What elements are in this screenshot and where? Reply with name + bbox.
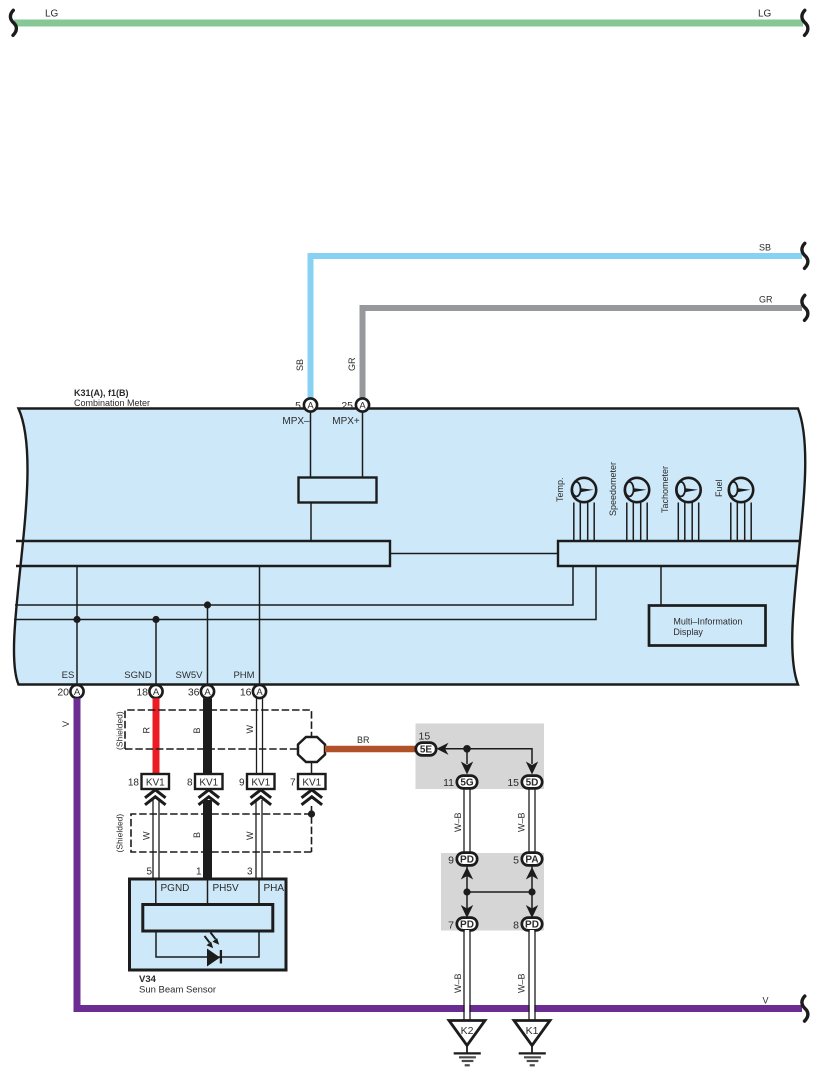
wire B to sensor pin 1 bbox=[203, 800, 212, 879]
break symbol right of LG wire bbox=[802, 10, 808, 35]
svg-text:W–B: W–B bbox=[517, 812, 527, 832]
MPX module box bbox=[299, 478, 377, 503]
break symbol right of GR wire bbox=[802, 295, 808, 320]
wire 5E to branch bbox=[445, 749, 532, 764]
pin 20 connector A (ES) bbox=[57, 670, 83, 699]
svg-text:W: W bbox=[245, 831, 255, 840]
break symbol left of LG wire bbox=[10, 10, 16, 35]
connector 5 PA bbox=[513, 853, 542, 867]
wire GR (gray) bbox=[363, 308, 803, 398]
wire W to sensor pin 5 bbox=[153, 800, 159, 879]
svg-text:15: 15 bbox=[419, 731, 431, 743]
svg-text:8: 8 bbox=[513, 920, 519, 932]
svg-text:MPX–: MPX– bbox=[282, 416, 310, 427]
svg-text:7: 7 bbox=[290, 778, 296, 789]
svg-text:A: A bbox=[256, 687, 263, 698]
svg-text:PGND: PGND bbox=[161, 883, 190, 894]
svg-text:SB: SB bbox=[295, 359, 305, 371]
Multi-Information Display box bbox=[649, 606, 766, 646]
connector 8 KV1 bbox=[187, 774, 223, 805]
svg-text:KV1: KV1 bbox=[302, 778, 321, 789]
photodiode D1 bbox=[207, 949, 221, 967]
wire W-B left upper bbox=[464, 788, 470, 853]
internal wire ES vertical bbox=[76, 566, 78, 685]
wire from pin 5 to MPX module bbox=[310, 412, 312, 478]
internal wire SW5V vertical bbox=[207, 605, 209, 685]
svg-text:Fuel: Fuel bbox=[714, 479, 724, 497]
arrow down to 7 PD bbox=[461, 905, 473, 918]
svg-text:Temp.: Temp. bbox=[555, 477, 565, 502]
svg-text:SW5V: SW5V bbox=[176, 670, 204, 681]
svg-text:PHA: PHA bbox=[264, 883, 285, 894]
connector 9 KV1 bbox=[239, 774, 275, 805]
wire from MPX module to left bus bar bbox=[310, 503, 312, 542]
svg-text:Display: Display bbox=[673, 627, 703, 637]
svg-text:LG: LG bbox=[45, 9, 59, 20]
wire octagon to connector 7 KV1 bbox=[311, 762, 313, 774]
svg-text:5: 5 bbox=[295, 400, 301, 412]
pin 5 connector A (MPX-) bbox=[282, 398, 317, 427]
svg-text:5G: 5G bbox=[460, 778, 474, 789]
svg-text:GR: GR bbox=[347, 357, 357, 371]
arrow up into 9 PD bbox=[461, 867, 473, 880]
svg-text:PA: PA bbox=[525, 855, 538, 866]
svg-text:1: 1 bbox=[196, 867, 202, 878]
svg-text:18: 18 bbox=[128, 778, 140, 789]
svg-text:A: A bbox=[74, 687, 81, 698]
junction block shaded area upper bbox=[416, 724, 545, 790]
svg-text:3: 3 bbox=[247, 867, 253, 878]
connector 11 5G bbox=[443, 776, 477, 789]
sensor terminal PH5V bbox=[208, 879, 239, 905]
svg-text:W: W bbox=[245, 725, 255, 734]
svg-text:K1: K1 bbox=[526, 1025, 539, 1037]
svg-text:V: V bbox=[61, 721, 71, 727]
svg-text:W: W bbox=[142, 831, 152, 840]
wire V (purple) bbox=[77, 698, 802, 1008]
svg-text:16: 16 bbox=[240, 687, 252, 699]
left bus bar bbox=[16, 541, 390, 566]
connector 9 PD bbox=[448, 853, 477, 867]
break symbol right of V wire bbox=[802, 996, 808, 1021]
internal wire upper horizontal bbox=[15, 566, 573, 605]
svg-text:R: R bbox=[142, 727, 152, 734]
svg-text:9: 9 bbox=[448, 855, 454, 867]
svg-text:A: A bbox=[307, 400, 314, 411]
svg-text:15: 15 bbox=[507, 777, 519, 789]
svg-text:5: 5 bbox=[146, 867, 152, 878]
internal wire PHM vertical bbox=[259, 566, 261, 685]
svg-text:18: 18 bbox=[136, 687, 148, 699]
wire bus bar to Multi-Information Display bbox=[660, 566, 662, 605]
svg-text:A: A bbox=[359, 400, 366, 411]
svg-text:W–B: W–B bbox=[517, 973, 527, 993]
junction node left bridge bbox=[463, 888, 470, 895]
svg-text:SGND: SGND bbox=[124, 670, 152, 681]
gauge Speedometer bbox=[608, 462, 649, 541]
svg-text:B: B bbox=[192, 727, 202, 733]
svg-text:20: 20 bbox=[57, 687, 69, 699]
sensor terminal PGND bbox=[156, 879, 190, 905]
wire W-B right upper bbox=[529, 788, 535, 853]
right bus bar bbox=[558, 541, 801, 566]
svg-text:7: 7 bbox=[448, 920, 454, 932]
junction node right bridge bbox=[528, 888, 535, 895]
svg-text:A: A bbox=[204, 687, 211, 698]
ground point K1 bbox=[514, 1021, 550, 1066]
svg-text:ES: ES bbox=[62, 670, 75, 681]
junction node on 5E wire bbox=[463, 745, 471, 753]
svg-text:KV1: KV1 bbox=[146, 778, 165, 789]
ground point K2 bbox=[449, 1021, 485, 1066]
svg-text:BR: BR bbox=[357, 735, 370, 745]
component V34 Sun Beam Sensor body bbox=[130, 879, 287, 970]
wire PD to PA bridge bbox=[467, 865, 532, 916]
svg-text:KV1: KV1 bbox=[199, 778, 218, 789]
connector 7 KV1 bbox=[290, 774, 326, 805]
svg-text:A: A bbox=[153, 687, 160, 698]
svg-text:(Shielded): (Shielded) bbox=[115, 814, 125, 853]
svg-text:GR: GR bbox=[759, 295, 773, 305]
pin 36 connector A (SW5V) bbox=[176, 670, 215, 699]
internal wire SGND vertical bbox=[155, 620, 157, 686]
sensor terminal PHA bbox=[259, 879, 284, 905]
sensor internal wire loop bbox=[156, 931, 259, 957]
connector 7 PD bbox=[448, 918, 477, 932]
wire R (red) bbox=[153, 698, 160, 774]
shielded cable dashed box lower bbox=[131, 806, 312, 852]
svg-text:11: 11 bbox=[443, 777, 454, 789]
svg-text:SB: SB bbox=[759, 243, 771, 253]
svg-text:PD: PD bbox=[525, 920, 539, 931]
gauge Tachometer bbox=[660, 466, 701, 541]
svg-text:MPX+: MPX+ bbox=[332, 416, 360, 427]
pin 16 connector A (PHM) bbox=[233, 670, 266, 699]
shielded cable dashed box upper bbox=[125, 710, 312, 749]
connector 8 PD bbox=[513, 918, 542, 932]
arrow down to 5D bbox=[526, 762, 538, 775]
wire W-B left lower bbox=[464, 930, 470, 1021]
wire W-B right lower bbox=[529, 930, 535, 1021]
svg-text:5D: 5D bbox=[526, 778, 539, 789]
svg-text:5E: 5E bbox=[420, 745, 433, 756]
svg-text:V34: V34 bbox=[139, 974, 157, 985]
pin 18 connector A (SGND) bbox=[124, 670, 162, 699]
connector 18 KV1 bbox=[128, 774, 169, 805]
svg-text:W–B: W–B bbox=[453, 812, 463, 832]
svg-text:Speedometer: Speedometer bbox=[608, 462, 618, 516]
svg-text:9: 9 bbox=[239, 778, 245, 789]
wire LG (green) bbox=[14, 20, 803, 27]
svg-text:8: 8 bbox=[187, 778, 193, 789]
wire from pin 25 to MPX module bbox=[362, 412, 364, 478]
component K31 Combination Meter body bbox=[14, 409, 805, 685]
gauge Temp. bbox=[555, 477, 596, 541]
wire BR (brown) bbox=[325, 746, 417, 753]
arrow down to 8 PD bbox=[526, 905, 538, 918]
svg-text:Tachometer: Tachometer bbox=[660, 466, 670, 513]
wire SB (light blue) bbox=[311, 256, 803, 398]
svg-text:25: 25 bbox=[341, 400, 353, 412]
wire W to sensor pin 3 bbox=[256, 800, 262, 879]
shield terminal octagon bbox=[298, 737, 325, 762]
light arrows into photodiode bbox=[205, 933, 220, 949]
connector 15 5E bbox=[416, 731, 436, 756]
arrow down to 5G bbox=[461, 762, 473, 775]
junction node on ES wire bbox=[73, 616, 80, 623]
svg-text:V: V bbox=[763, 996, 769, 1006]
svg-text:LG: LG bbox=[758, 9, 772, 20]
svg-text:PHM: PHM bbox=[233, 670, 254, 681]
svg-text:B: B bbox=[192, 832, 202, 838]
svg-text:W–B: W–B bbox=[453, 973, 463, 993]
wire W (white, outlined) bbox=[257, 698, 263, 774]
junction node on shield drain bbox=[308, 810, 315, 817]
wire B (black) bbox=[203, 698, 212, 774]
svg-text:36: 36 bbox=[188, 687, 200, 699]
svg-text:Combination Meter: Combination Meter bbox=[74, 398, 150, 408]
svg-text:PD: PD bbox=[460, 855, 474, 866]
svg-text:PH5V: PH5V bbox=[213, 883, 239, 894]
svg-text:K2: K2 bbox=[461, 1025, 474, 1037]
svg-text:K31(A), f1(B): K31(A), f1(B) bbox=[74, 388, 129, 398]
arrow up into 5 PA bbox=[526, 867, 538, 880]
break symbol right of SB wire bbox=[802, 243, 808, 268]
svg-text:KV1: KV1 bbox=[251, 778, 270, 789]
svg-text:Multi–Information: Multi–Information bbox=[673, 617, 742, 627]
internal wire lower horizontal bbox=[14, 566, 596, 620]
pin 25 connector A (MPX+) bbox=[332, 398, 369, 427]
gauge Fuel bbox=[714, 478, 753, 541]
junction node on SW5V wire bbox=[204, 601, 211, 608]
arrow into 5E bbox=[437, 743, 449, 755]
svg-text:5: 5 bbox=[513, 855, 519, 867]
junction node on SGND wire bbox=[152, 616, 159, 623]
svg-text:PD: PD bbox=[460, 920, 474, 931]
junction block shaded area lower bbox=[441, 853, 544, 931]
wire between bus bars bbox=[390, 553, 558, 555]
svg-text:(Shielded): (Shielded) bbox=[115, 711, 125, 750]
sensor inner block bbox=[143, 905, 273, 932]
svg-text:Sun Beam Sensor: Sun Beam Sensor bbox=[139, 985, 216, 996]
connector 15 5D bbox=[507, 776, 542, 789]
